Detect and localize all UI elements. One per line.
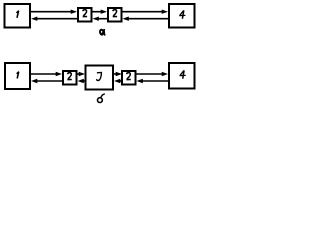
wire 2 to 2 arrow right (row a) (93, 10, 108, 14)
wire 2 to 1 arrow left (row b) (31, 79, 62, 83)
wire 2 to 4 arrow right (row b) (137, 72, 169, 76)
wire 2 to 3 arrow right (row b) (78, 72, 86, 76)
block 1 (row b) (5, 63, 30, 89)
digit 1 (row a block 1) (16, 11, 18, 18)
digit 1 (row b block 1) (17, 72, 19, 79)
digit 2 (row a first small block) (83, 10, 87, 17)
block 4 (row b) (169, 63, 195, 89)
wire 3 to 2 arrow right (row b) (114, 72, 122, 76)
wire 4 to 2 arrow left (row a) (123, 17, 169, 21)
digit 2 (row a second small block) (113, 10, 117, 17)
wire 2 to 1 arrow left (row a) (31, 17, 77, 21)
wire 1 to 2 arrow right (row b) (31, 72, 62, 76)
digit 4 (row a block 4) (179, 10, 185, 18)
wire 2 to 2 arrow left (row a) (93, 17, 108, 21)
block 2 left (row b) (63, 71, 77, 85)
digit 3 (row b block 3) (97, 72, 102, 80)
wire 3 to 2 arrow left (row b) (78, 79, 86, 83)
caption b (98, 94, 105, 103)
digit 4 (row b block 4) (180, 70, 186, 78)
block 1 (row a) (5, 4, 31, 28)
wire 1 to 2 arrow right (row a) (31, 10, 77, 14)
block 2 first (row a) (78, 8, 92, 22)
block 3 (row b) (86, 66, 114, 90)
wire 2 to 3 arrow left (row b) (114, 79, 122, 83)
wire 2 to 4 arrow right (row a) (123, 10, 169, 14)
wire 4 to 2 arrow left (row b) (137, 79, 169, 83)
block 2 second (row a) (108, 8, 122, 22)
caption a (98, 28, 105, 36)
digit 2 (row b right small block) (126, 73, 130, 80)
block 2 right (row b) (122, 71, 136, 85)
digit 2 (row b left small block) (67, 73, 71, 80)
block 4 (row a) (169, 4, 195, 28)
